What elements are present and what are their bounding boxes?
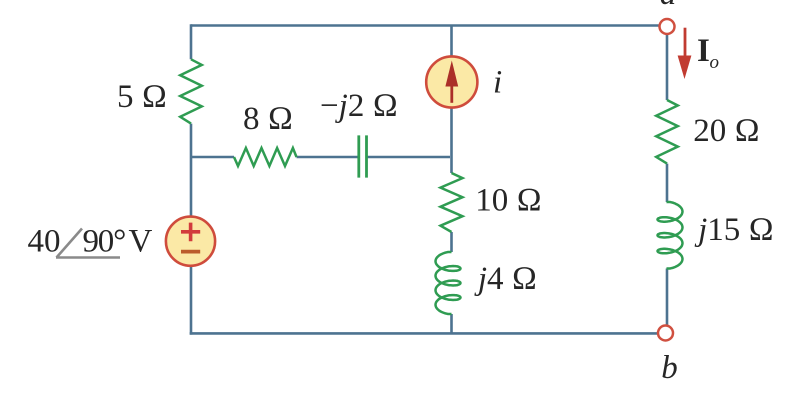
svg-text:j4 Ω: j4 Ω — [474, 261, 537, 297]
svg-text:20 Ω: 20 Ω — [693, 113, 760, 149]
svg-text:8 Ω: 8 Ω — [243, 101, 293, 137]
svg-text:a: a — [660, 0, 677, 12]
svg-text:o: o — [710, 52, 720, 73]
svg-text:90°: 90° — [83, 224, 126, 260]
svg-text:i: i — [493, 65, 502, 101]
svg-text:b: b — [661, 350, 678, 386]
svg-text:j15 Ω: j15 Ω — [694, 212, 774, 248]
svg-text:V: V — [129, 224, 153, 260]
svg-text:10 Ω: 10 Ω — [475, 183, 542, 219]
svg-text:5 Ω: 5 Ω — [117, 79, 167, 115]
svg-text:−j2 Ω: −j2 Ω — [320, 88, 398, 124]
svg-text:I: I — [697, 33, 710, 69]
svg-text:40: 40 — [28, 224, 61, 260]
